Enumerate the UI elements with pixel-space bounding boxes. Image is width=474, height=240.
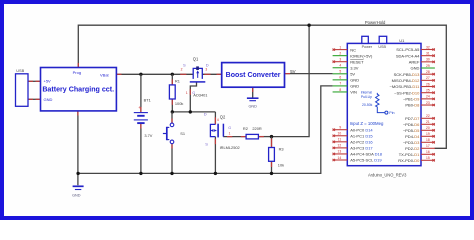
svg-text:~PD6-D6: ~PD6-D6: [403, 122, 420, 127]
svg-text:28: 28: [426, 70, 430, 74]
wire VBat net: charger VBat to Q1 source: [116, 73, 193, 75]
pin stub R2 right: [258, 136, 263, 138]
wire USB GND to charger: [28, 98, 41, 100]
pin 16 TX-PD1-D1 (right): [399, 150, 435, 157]
svg-text:R3: R3: [279, 147, 284, 152]
svg-text:11: 11: [338, 138, 342, 142]
svg-text:1: 1: [229, 132, 231, 136]
pin 26 ~MOSI-PB3-D11 (right): [390, 82, 435, 89]
pin stub boost output: [285, 73, 291, 75]
svg-text:29: 29: [426, 64, 430, 68]
label 3.7V: [144, 133, 152, 138]
svg-text:12: 12: [338, 144, 342, 148]
svg-text:RESET: RESET: [350, 59, 364, 64]
wire charger GND pin down to rail and ground symbol: [77, 111, 79, 185]
wire R3 bottom to ground rail: [271, 161, 273, 173]
pin 15 RX-PD0-D0 (right): [398, 156, 435, 163]
pin 10 A1-PC1 D15 (left): [333, 132, 374, 139]
pin stub charger VBat: [116, 73, 121, 75]
svg-text:AO3401: AO3401: [193, 92, 207, 97]
pin 21 ~PD6-D6 (right): [403, 120, 435, 127]
label R3: [279, 147, 284, 152]
svg-text:~PD3-D3: ~PD3-D3: [403, 140, 420, 145]
pin stub Q1 source: [180, 73, 186, 75]
pin 24 ~PB1-D9 (right): [403, 95, 435, 102]
wire Q2 source to ground rail: [214, 137, 216, 174]
label 100k: [175, 101, 183, 106]
label Power: [362, 45, 373, 49]
pin 17 PD2-D2 (right): [405, 144, 435, 151]
wire PowerHold net: Prog pin up, across top, down right side to PD2-D2: [78, 25, 446, 148]
node R2-R3-PowerHold junction: [270, 135, 273, 138]
svg-text:PD4-D4: PD4-D4: [405, 134, 420, 139]
svg-text:S: S: [183, 63, 186, 68]
svg-text:Boost Converter: Boost Converter: [226, 72, 281, 79]
svg-text:GND: GND: [72, 194, 81, 198]
node gate-node left junction: [171, 110, 174, 113]
svg-text:A1-PC1 D15: A1-PC1 D15: [350, 133, 373, 138]
wire R1 top: [171, 74, 173, 85]
svg-text:BT1: BT1: [144, 97, 151, 102]
label Q1 pin G: [192, 91, 195, 95]
svg-text:GND: GND: [411, 66, 420, 71]
wire Q2 gate to R2: [223, 136, 246, 138]
pin 25 ~SS-PB2-D10 (right): [394, 88, 435, 95]
svg-text:22: 22: [426, 114, 430, 118]
pin 9 A0-PC0 D14 (left): [333, 126, 374, 133]
pin 22 PD7-D7 (right): [405, 114, 435, 121]
pin stub S1 bottom: [171, 144, 173, 149]
connector power jack tab: [362, 36, 369, 43]
label R2: [243, 126, 248, 131]
ic U1 Arduino UNO body: [347, 43, 421, 165]
wire S1 bottom to ground rail: [171, 144, 173, 174]
pin 30 AREF (right): [409, 58, 435, 65]
svg-text:S: S: [205, 141, 208, 146]
label Q1 pin 3: [205, 68, 207, 72]
svg-text:26: 26: [426, 82, 430, 86]
svg-text:2: 2: [181, 68, 183, 72]
pin 3 RESET (left): [333, 58, 364, 65]
label R1: [175, 78, 180, 83]
svg-text:5V: 5V: [290, 69, 295, 74]
node rail-Q2 junction: [214, 172, 217, 175]
wire battery bottom to ground rail: [140, 123, 142, 173]
pin 11 A2-PC2 D16 (left): [333, 138, 374, 145]
svg-text:18: 18: [426, 138, 430, 142]
svg-text:3.3V: 3.3V: [350, 65, 359, 70]
svg-text:27: 27: [426, 76, 430, 80]
wire R2 to junction: [258, 136, 271, 138]
svg-text:VIN: VIN: [350, 90, 357, 95]
pin stub charger bottom GND: [77, 111, 79, 116]
pin 20 ~PD5-D5 (right): [403, 126, 435, 133]
svg-text:A5-PC5-SCL D19: A5-PC5-SCL D19: [350, 158, 382, 163]
svg-text:S1: S1: [180, 131, 185, 136]
svg-text:PD2-D2: PD2-D2: [405, 146, 420, 151]
svg-text:PD7-D7: PD7-D7: [405, 116, 420, 121]
svg-text:1: 1: [339, 45, 341, 49]
node VBat-R1 junction: [171, 73, 174, 76]
pin stub R1 top: [171, 80, 173, 85]
svg-text:PB0-D8: PB0-D8: [405, 103, 420, 108]
svg-text:6: 6: [339, 76, 341, 80]
pin 6 GND (left): [333, 76, 360, 83]
svg-text:D: D: [204, 111, 207, 116]
pin 7 GND (left): [333, 82, 360, 89]
svg-text:100k: 100k: [175, 101, 183, 106]
label Q1: [193, 57, 199, 62]
svg-text:16: 16: [426, 150, 430, 154]
label Q2 pin 1: [229, 132, 231, 136]
svg-text:IOREF(+5V): IOREF(+5V): [350, 53, 373, 58]
resistor internal pull-up 20-50k: [361, 91, 395, 116]
svg-text:17: 17: [426, 144, 430, 148]
connector USB socket: [16, 68, 29, 106]
svg-text:10k: 10k: [278, 163, 284, 168]
svg-text:15: 15: [426, 156, 430, 160]
svg-text:U1: U1: [399, 38, 405, 43]
pin stub boost GND: [252, 87, 254, 92]
svg-text:Input Z = 100Meg: Input Z = 100Meg: [350, 121, 384, 126]
wire USB +5V to charger: [28, 80, 41, 82]
connector USB tab: [379, 36, 387, 43]
svg-text:SCL-PC5-A5: SCL-PC5-A5: [396, 47, 420, 52]
svg-text:25: 25: [426, 88, 430, 92]
node rail-ground junction: [76, 172, 79, 175]
pin stub Q2 gate: [227, 136, 232, 138]
battery BT1: [134, 105, 148, 123]
label Arduino_UNO_REV3: [368, 172, 407, 177]
wire ground rail across bottom up to Arduino GND pin 7: [78, 86, 333, 173]
label USB (arduino): [378, 45, 386, 49]
svg-text:IRLML2502: IRLML2502: [220, 145, 240, 150]
pin stub charger +5V: [36, 80, 41, 82]
pin stub Q1 drain: [204, 73, 210, 75]
svg-text:GND: GND: [350, 84, 359, 89]
label S1: [180, 131, 185, 136]
pin 13 A4-PC4-SDA D18 (left): [333, 150, 383, 157]
svg-text:PowerHold: PowerHold: [365, 20, 386, 25]
svg-text:1: 1: [186, 91, 188, 95]
label 220R: [252, 126, 261, 131]
pin 29 GND (right): [411, 64, 435, 71]
svg-text:23: 23: [426, 101, 430, 105]
label Q2 pin S: [205, 141, 208, 146]
wire boost converter GND pin: [252, 87, 254, 97]
svg-text:R1: R1: [175, 78, 180, 83]
pin stub USB GND: [28, 98, 33, 100]
label Q2 pin G: [228, 126, 231, 130]
svg-text:~SS-PB2-D10: ~SS-PB2-D10: [394, 90, 420, 95]
pin 32 SCL-PC5-A5 (right): [396, 45, 435, 52]
pin 27 MISO-PB4-D12 (right): [392, 76, 435, 83]
pin 28 SCK-PB5-D13 (right): [394, 70, 435, 77]
wire S1 top: [171, 112, 173, 123]
svg-text:G: G: [192, 91, 195, 95]
wire Q1 gate lead: [190, 82, 196, 112]
svg-text:USB: USB: [378, 45, 386, 49]
svg-text:4: 4: [217, 118, 219, 122]
pin 2 IOREF(+5V) (left): [333, 51, 373, 58]
label net 5V: [290, 69, 295, 74]
pin stub R1 bottom: [171, 99, 173, 105]
svg-text:Q2: Q2: [220, 114, 226, 119]
pin 4 3.3V (left): [333, 64, 359, 71]
svg-text:+5V: +5V: [44, 79, 52, 84]
svg-text:Arduino_UNO_REV3: Arduino_UNO_REV3: [368, 172, 407, 177]
svg-text:GND: GND: [248, 104, 257, 108]
svg-text:~PB1-D9: ~PB1-D9: [403, 97, 420, 102]
svg-text:Pull-Up: Pull-Up: [361, 95, 372, 99]
pin 5 5V (left): [333, 70, 356, 77]
svg-text:USB: USB: [16, 68, 24, 73]
svg-text:5V: 5V: [350, 72, 355, 77]
pin stub USB +5V: [28, 80, 33, 82]
node PowerHold junction: [307, 24, 310, 27]
svg-text:A3-PC3 D17: A3-PC3 D17: [350, 146, 373, 151]
node rail-battery junction: [139, 172, 142, 175]
pin 8 VIN (left): [333, 88, 357, 95]
node rail-S1 junction: [170, 172, 173, 175]
label Q2: [220, 114, 226, 119]
pin 14 A5-PC5-SCL D19 (left): [333, 156, 383, 163]
label U1: [399, 38, 405, 43]
svg-text:A0-PC0 D14: A0-PC0 D14: [350, 127, 373, 132]
pin stub BT1 +: [140, 107, 142, 112]
svg-text:SDA-PC4-A4: SDA-PC4-A4: [396, 53, 420, 58]
svg-text:14: 14: [338, 156, 342, 160]
wire 5V: boost output to Arduino 5V pin: [285, 73, 333, 75]
svg-text:8: 8: [339, 88, 341, 92]
label 10k: [278, 163, 284, 168]
node Q1 gate junction: [189, 110, 192, 113]
svg-text:19: 19: [426, 132, 430, 136]
svg-text:Internal: Internal: [361, 91, 373, 95]
svg-text:13: 13: [338, 150, 342, 154]
svg-text:Q1: Q1: [193, 57, 199, 62]
svg-text:GND: GND: [44, 97, 53, 102]
resistor R2: [246, 134, 258, 139]
svg-text:3.7V: 3.7V: [144, 133, 152, 138]
label Q2 pin D: [204, 111, 207, 116]
ground main rail: [72, 186, 84, 197]
label AO3401: [193, 92, 207, 97]
svg-text:GND: GND: [350, 78, 359, 83]
wire battery top: [140, 74, 142, 112]
svg-text:24: 24: [426, 95, 430, 99]
svg-text:~MOSI-PB3-D11: ~MOSI-PB3-D11: [390, 84, 421, 89]
node rail-R3 junction: [270, 172, 273, 175]
pin stub charger GND: [36, 98, 41, 100]
svg-text:30: 30: [426, 58, 430, 62]
pin stub charger Prog: [77, 63, 79, 68]
svg-text:~PD5-D5: ~PD5-D5: [403, 128, 420, 133]
svg-text:21: 21: [426, 120, 430, 124]
label Q1 pin S: [183, 63, 186, 68]
label Q1 pin 1: [186, 91, 188, 95]
label Q2 pin 4: [217, 118, 219, 122]
svg-text:AREF: AREF: [409, 60, 420, 65]
svg-text:20-50k: 20-50k: [362, 103, 373, 107]
wire R1 bottom to gate node: [171, 99, 173, 112]
svg-text:Pin: Pin: [389, 111, 394, 115]
svg-text:NC: NC: [350, 47, 356, 52]
svg-text:Power: Power: [362, 45, 373, 49]
svg-text:RX-PD0-D0: RX-PD0-D0: [398, 158, 420, 163]
label Input Z: [350, 121, 384, 126]
pin 1 NC (left): [333, 45, 356, 52]
svg-text:4: 4: [339, 64, 341, 68]
wire Q2 drain: [214, 112, 216, 124]
module Boost Converter: [222, 63, 285, 88]
pin stub Q2 source: [214, 139, 216, 144]
pin 19 PD4-D4 (right): [405, 132, 435, 139]
pin 31 SDA-PC4-A4 (right): [396, 51, 435, 58]
ground boost converter: [247, 98, 259, 108]
pin stub R3 top: [271, 139, 273, 148]
svg-text:TX-PD1-D1: TX-PD1-D1: [399, 152, 420, 157]
svg-text:7: 7: [339, 82, 341, 86]
node VBat-battery junction: [139, 73, 142, 76]
svg-text:32: 32: [426, 45, 430, 49]
svg-text:Prog: Prog: [73, 70, 81, 75]
svg-text:Battery Charging cct.: Battery Charging cct.: [42, 86, 114, 94]
pin stub boost input: [217, 73, 222, 75]
switch S1 pushbutton: [163, 123, 174, 144]
pin stub R3 bottom: [271, 161, 273, 167]
pin stub Q2 drain: [214, 117, 216, 124]
svg-text:5: 5: [339, 70, 341, 74]
svg-text:9: 9: [339, 126, 341, 130]
resistor R1: [169, 85, 175, 99]
transistor Q2 IRLML2502 symbol: [210, 124, 223, 138]
svg-text:A4-PC4-SDA D18: A4-PC4-SDA D18: [350, 152, 383, 157]
svg-text:31: 31: [426, 51, 430, 55]
wire PowerHold branch down to R2/R3 junction: [272, 25, 310, 136]
label BT1: [144, 97, 151, 102]
pin stub Q1 gate: [189, 89, 191, 95]
pin stub BT1 -: [140, 123, 142, 128]
label Q1 pin 2: [181, 68, 183, 72]
svg-text:3: 3: [205, 68, 207, 72]
svg-text:G: G: [228, 126, 231, 130]
pin 12 A3-PC3 D17 (left): [333, 144, 374, 151]
resistor R3: [269, 148, 275, 162]
svg-text:VBat: VBat: [100, 72, 110, 77]
svg-text:SCK-PB5-D13: SCK-PB5-D13: [394, 72, 421, 77]
wire Q1 drain to boost converter input: [202, 73, 221, 75]
pin 18 ~PD3-D3 (right): [403, 138, 435, 145]
label net PowerHold: [365, 20, 386, 25]
svg-text:220R: 220R: [252, 126, 261, 131]
svg-text:R2: R2: [243, 126, 248, 131]
svg-text:+: +: [138, 105, 141, 110]
wire gate node horizontal: [172, 111, 215, 113]
pin stub R2 left: [241, 136, 246, 138]
label Q1 pin D: [206, 63, 209, 68]
pin stub S1 top: [171, 119, 173, 124]
module Battery Charging cct.: [41, 68, 117, 111]
label IRLML2502: [220, 145, 240, 150]
pin 23 PB0-D8 (right): [405, 101, 435, 108]
wire R3 top: [271, 137, 273, 148]
svg-text:MISO-PB4-D12: MISO-PB4-D12: [392, 78, 421, 83]
svg-text:20: 20: [426, 126, 430, 130]
svg-text:10: 10: [338, 132, 342, 136]
svg-text:2: 2: [339, 51, 341, 55]
svg-text:3: 3: [339, 58, 341, 62]
svg-text:A2-PC2 D16: A2-PC2 D16: [350, 140, 373, 145]
transistor Q1 AO3401 symbol: [190, 66, 206, 82]
